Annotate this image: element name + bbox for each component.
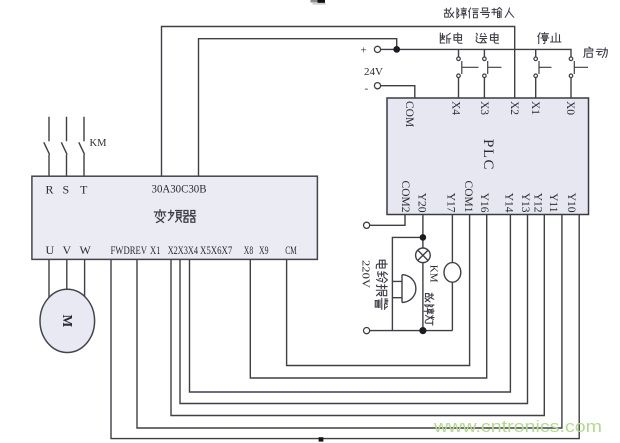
svg-text:Y14: Y14: [503, 193, 515, 213]
svg-text:Y17: Y17: [445, 193, 457, 213]
svg-text:R: R: [46, 183, 54, 197]
label songdian (power on): [476, 33, 499, 44]
svg-text:X2X3X4: X2X3X4: [168, 245, 198, 257]
wire lamp to bottom node: [422, 263, 424, 331]
wire W to motor: [84, 259, 86, 298]
bell alarm: [402, 275, 416, 303]
pushbutton SB2 songdian contacts: [483, 57, 502, 78]
wire Y20 to lamp: [422, 215, 424, 249]
svg-text:KM: KM: [428, 265, 440, 283]
svg-text:X8: X8: [244, 245, 254, 257]
svg-text:U: U: [46, 243, 55, 257]
lamp fault indicator: [416, 248, 431, 263]
label duandian (power off): [440, 33, 462, 44]
svg-text:COM: COM: [403, 101, 415, 127]
terminal 24V plus: [374, 46, 380, 52]
label guzhangdeng (fault lamp) rotated: [424, 293, 434, 325]
wire COM2 to 220V terminal: [370, 215, 405, 226]
svg-text:T: T: [80, 183, 88, 197]
svg-text:W: W: [80, 243, 92, 257]
svg-text:PLC: PLC: [480, 139, 496, 171]
svg-text:CM: CM: [285, 245, 297, 257]
node junction Y20 bottom: [419, 327, 426, 334]
svg-text:Y16: Y16: [478, 193, 490, 213]
svg-text:30A30C30B: 30A30C30B: [152, 184, 207, 196]
label dianling baojing (bell alarm) rotated: [375, 260, 388, 309]
title fragment bottom: [319, 437, 324, 441]
svg-text:Y11: Y11: [547, 193, 559, 213]
label bianpinqi (frequency inverter): [154, 210, 195, 223]
contactor coil KM: [444, 263, 461, 283]
wire button SB1 down-lead to X4: [458, 49, 460, 98]
svg-text:-: -: [365, 83, 369, 95]
wire Y12 to X2: [171, 215, 544, 416]
svg-text:Y20: Y20: [416, 193, 428, 213]
svg-text:www.cntronics.com: www.cntronics.com: [433, 418, 602, 436]
svg-text:220V: 220V: [360, 260, 371, 288]
svg-text:S: S: [63, 183, 70, 197]
contactor KM main switches above R S T: [44, 117, 85, 177]
svg-text:X1: X1: [529, 101, 541, 115]
title fragment top: [311, 0, 326, 5]
svg-text:X1: X1: [150, 245, 161, 257]
wire Y10 to FWD: [111, 215, 579, 439]
svg-text:V: V: [63, 243, 72, 257]
PLC U2 box: [387, 98, 589, 215]
svg-text:Y13: Y13: [519, 193, 531, 213]
pushbutton SB4 qidong contacts: [569, 57, 588, 78]
terminal 220V lower: [364, 328, 370, 334]
label fault signal input guzhang xinhao shuru: [444, 7, 514, 18]
wire bell stubs: [392, 281, 402, 297]
wire Y16 to X8: [250, 215, 486, 379]
wire Y13 to X3: [180, 215, 528, 404]
wire bell branch left: [392, 237, 423, 330]
wire fault signal from VFD 30A to PLC X2: [162, 27, 515, 177]
svg-text:Y10: Y10: [565, 193, 577, 213]
svg-text:24V: 24V: [364, 66, 383, 78]
svg-text:X3: X3: [478, 101, 490, 115]
svg-text:Y12: Y12: [532, 193, 544, 213]
terminal 24V minus: [374, 83, 380, 89]
wire 220V bottom line: [370, 330, 453, 332]
terminal 220V upper: [364, 222, 370, 228]
svg-text:X9: X9: [259, 245, 269, 257]
svg-text:X5X6X7: X5X6X7: [200, 245, 232, 257]
label qidong (start): [584, 47, 608, 58]
wire COM1 to CM: [287, 215, 470, 366]
wire Y14 to X4: [190, 215, 511, 393]
wire 24V plus bus to start button: [381, 49, 571, 57]
node junction Y20 top: [420, 234, 427, 241]
wire 24V minus to PLC COM: [381, 86, 415, 98]
svg-text:X2: X2: [508, 101, 520, 115]
node junction at 24V plus: [393, 46, 400, 53]
wire button SB2 down-lead to X3: [483, 49, 485, 98]
wire Y11 to REV: [137, 215, 562, 429]
svg-text:X0: X0: [564, 101, 576, 115]
svg-text:+: +: [361, 45, 367, 57]
pushbutton SB3 tingzhi contacts: [534, 57, 552, 78]
wire Y17 to KM coil: [451, 215, 453, 331]
inverter U1 box bianpinqi: [32, 176, 318, 259]
pushbutton SB1 duandian contacts: [457, 57, 479, 78]
svg-text:KM: KM: [90, 138, 108, 149]
svg-text:FWDREV: FWDREV: [111, 245, 148, 257]
svg-text:COM2: COM2: [399, 181, 411, 213]
wire V to motor: [66, 259, 68, 290]
svg-text:M: M: [60, 315, 75, 328]
svg-text:X4: X4: [450, 101, 462, 115]
wire VFD 30B to 24V plus node: [199, 39, 397, 177]
svg-text:COM1: COM1: [462, 181, 474, 213]
label tingzhi (stop): [538, 33, 561, 44]
wire button SB3 down-lead to X1: [535, 49, 537, 98]
wire U to motor: [48, 259, 50, 298]
wire button SB4 down-lead to X0: [570, 78, 572, 98]
motor M1: [40, 289, 95, 352]
